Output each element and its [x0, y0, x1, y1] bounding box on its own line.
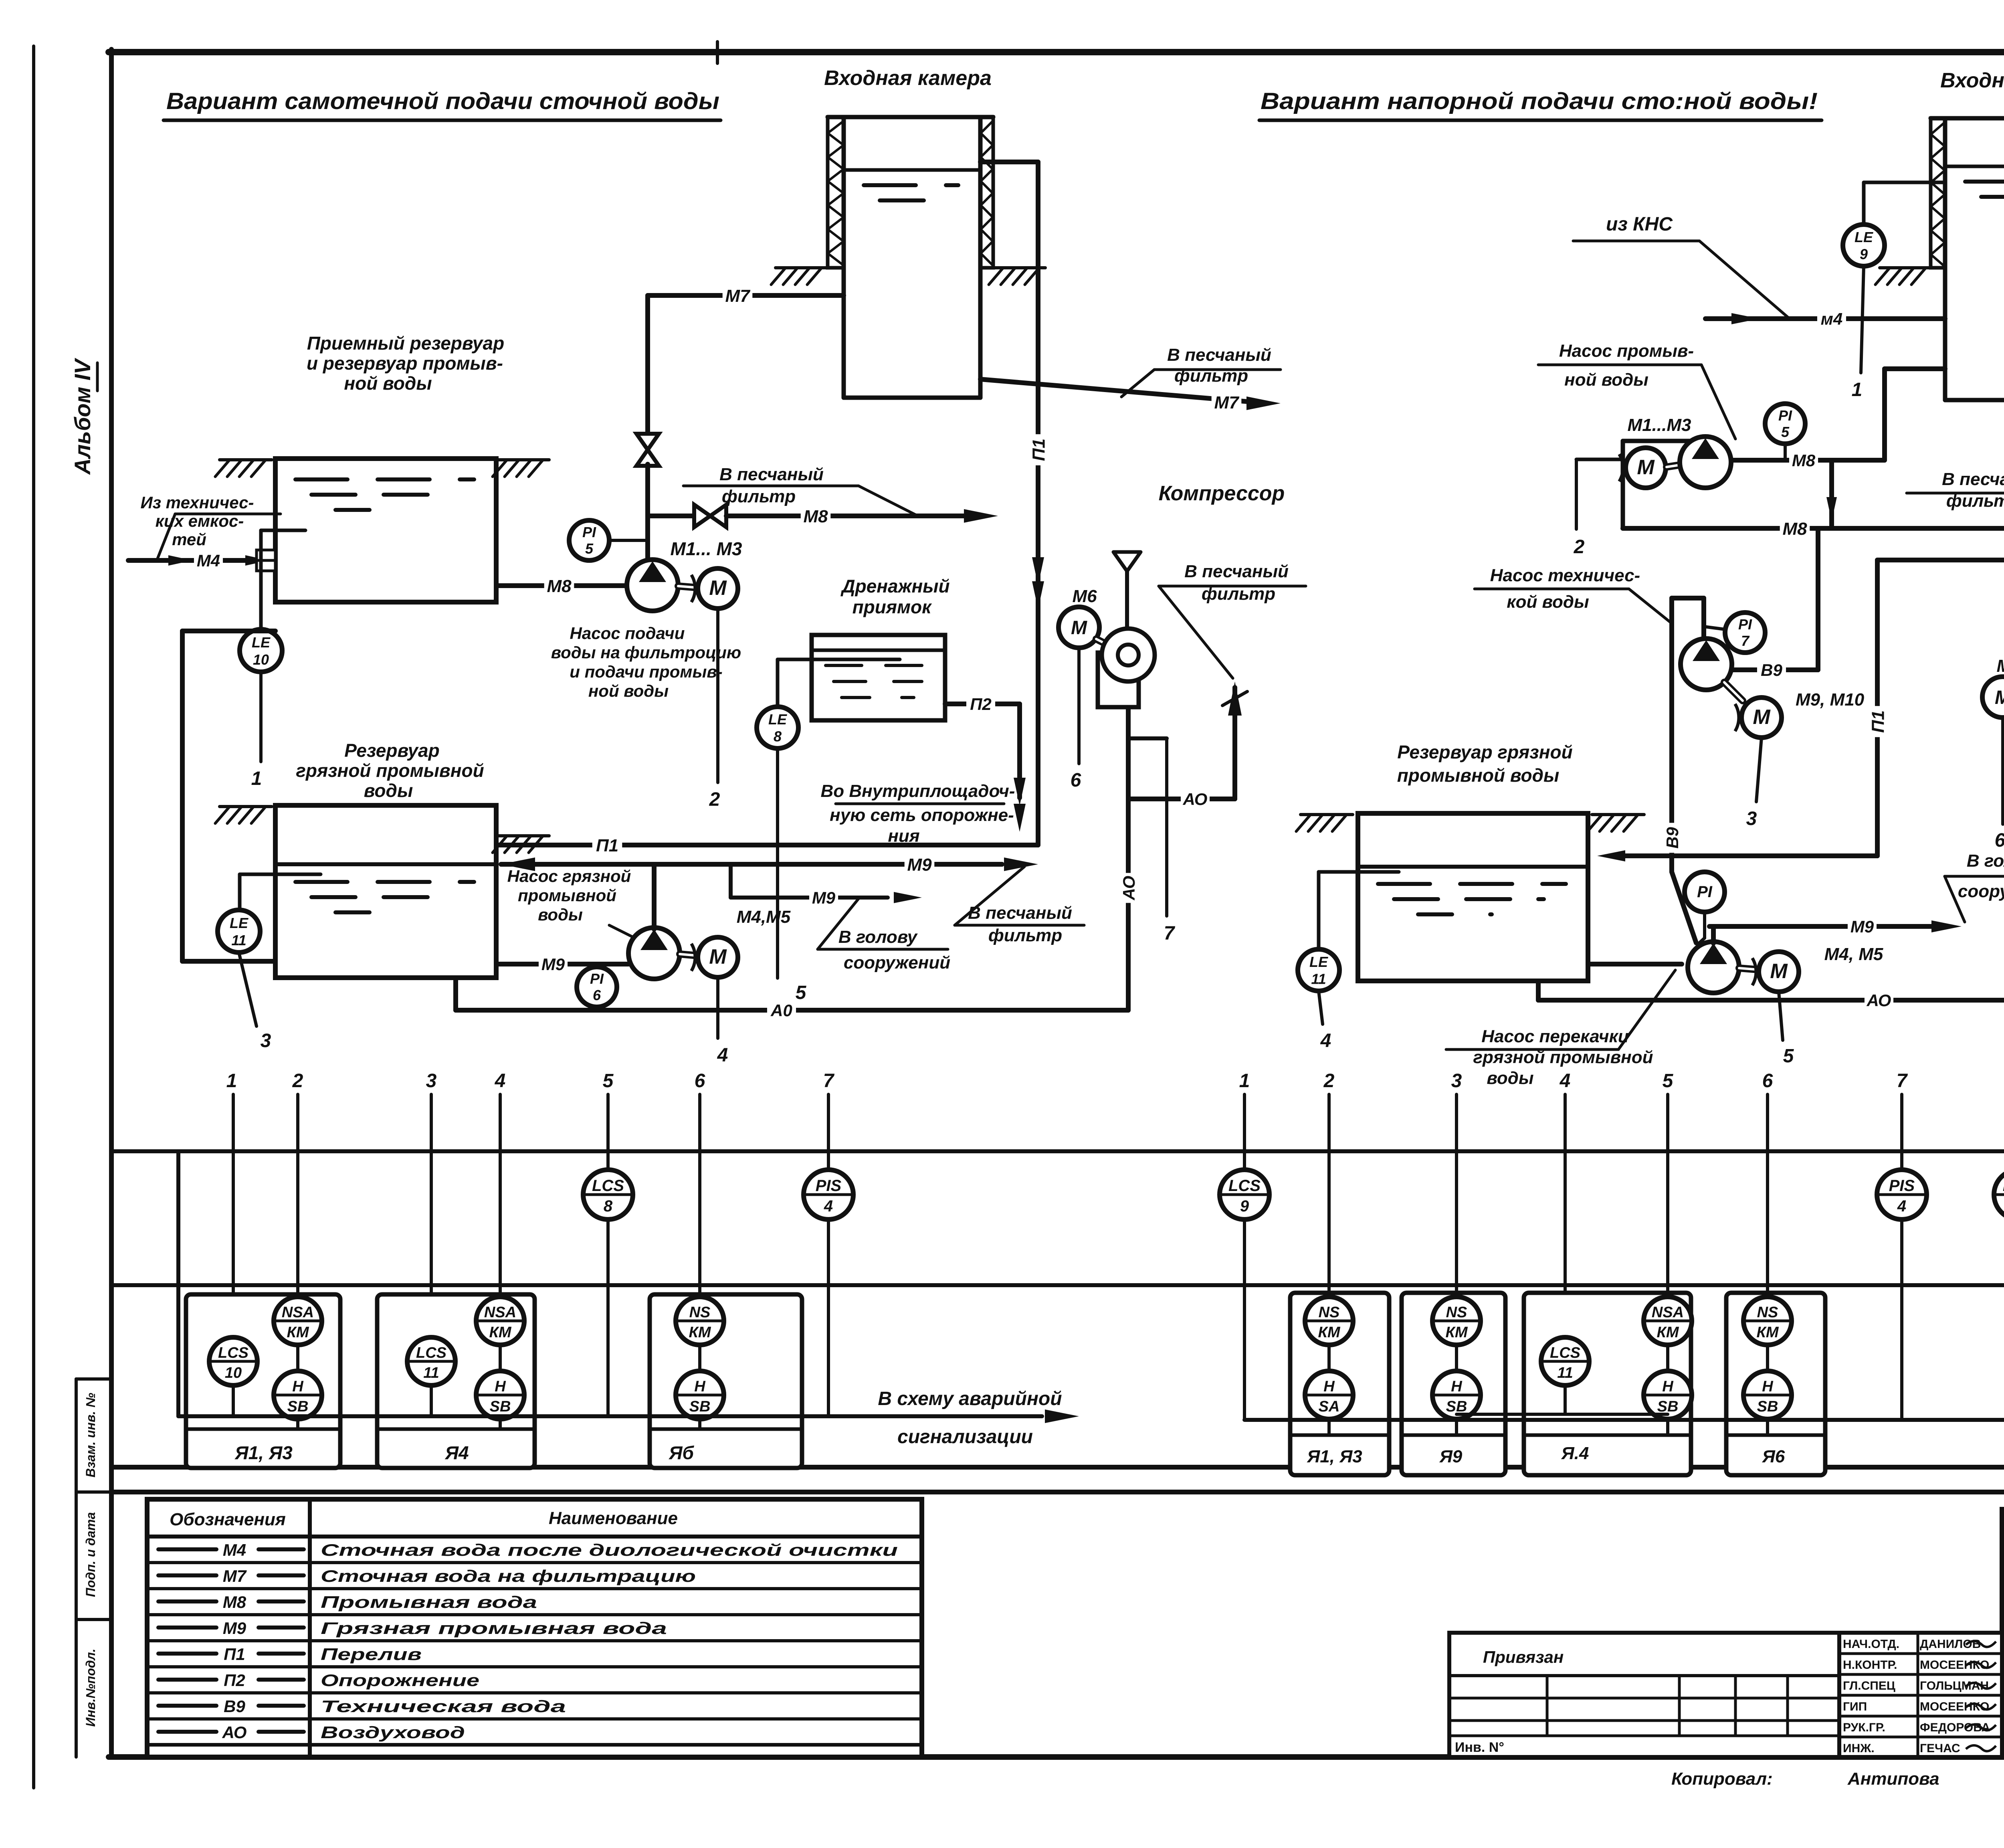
svg-text:PIS: PIS: [1889, 1177, 1915, 1195]
svg-text:8: 8: [604, 1197, 613, 1215]
svg-text:М8: М8: [803, 507, 828, 526]
svg-text:М9: М9: [541, 955, 565, 974]
svg-text:М8: М8: [1792, 451, 1816, 470]
left alarm bus line: [178, 1414, 1042, 1418]
svg-text:и резервуар промыв-: и резервуар промыв-: [307, 353, 503, 374]
svg-text:Я1, Я3: Я1, Я3: [1307, 1447, 1362, 1466]
relay box Яб (left): [650, 1294, 802, 1468]
pipe М9 return line with arrows (left): [501, 853, 1038, 875]
svg-text:ГОЛЬЦМАН: ГОЛЬЦМАН: [1920, 1679, 1989, 1692]
signal wire 6 from М6 (left): [1071, 648, 1081, 791]
svg-text:В схему аварийной: В схему аварийной: [878, 1388, 1062, 1409]
svg-text:м4: м4: [1821, 309, 1842, 328]
instrument NSA/KM box2 (left): [476, 1297, 524, 1371]
full-width separator line above legend: [111, 1490, 2004, 1494]
svg-text:SB: SB: [1446, 1398, 1467, 1415]
svg-text:11: 11: [1557, 1365, 1573, 1381]
svg-text:Наименование: Наименование: [549, 1508, 678, 1528]
svg-text:М7: М7: [725, 286, 751, 306]
svg-text:М8: М8: [547, 576, 572, 596]
wall pass-through sleeves on tank 1: [257, 550, 275, 571]
svg-text:4: 4: [1560, 1070, 1571, 1092]
svg-text:11: 11: [423, 1365, 439, 1381]
svg-text:LE: LE: [1309, 954, 1328, 970]
instrument H/SB box2 (right): [1432, 1371, 1481, 1433]
inlet chamber right inner vessel: [1945, 118, 2004, 400]
svg-text:Яб: Яб: [669, 1442, 695, 1463]
label М9, М10: [1796, 690, 1865, 710]
label В песчаный фильтр (left top): [1121, 345, 1281, 397]
svg-text:3: 3: [1746, 808, 1757, 829]
motor М4,М5 (right): [1752, 952, 1799, 992]
svg-text:3: 3: [426, 1070, 437, 1092]
svg-text:6: 6: [1995, 830, 2004, 851]
legend row АО: [147, 1723, 922, 1745]
svg-text:PI: PI: [590, 971, 604, 987]
svg-text:PI: PI: [1697, 883, 1713, 901]
arrow АО up (left): [1222, 681, 1247, 716]
label Во внутриплощадочную сеть опорожнения (left): [821, 781, 1015, 846]
svg-text:SB: SB: [1757, 1398, 1778, 1415]
instrument H/SB box2 (left): [476, 1371, 524, 1427]
svg-text:М9: М9: [1850, 917, 1874, 936]
svg-text:Приемный резервуар: Приемный резервуар: [307, 333, 504, 354]
double arrow П2 down (left): [1014, 778, 1026, 832]
svg-text:3: 3: [1451, 1070, 1462, 1092]
svg-text:Грязная промывная вода: Грязная промывная вода: [321, 1619, 667, 1638]
svg-text:SB: SB: [689, 1398, 711, 1415]
svg-text:SB: SB: [287, 1398, 309, 1415]
pipe П1 riser from inlet chamber (left): [980, 162, 1049, 845]
svg-text:АО: АО: [1183, 790, 1208, 809]
motor М6 (right): [1982, 656, 2004, 718]
svg-text:5: 5: [585, 540, 594, 557]
svg-text:П1: П1: [1869, 710, 1888, 733]
label М4, М5 (right): [1824, 944, 1883, 964]
svg-text:В песчаный: В песчаный: [968, 903, 1072, 923]
pipe П2 from drain pit (left): [945, 694, 1020, 798]
label Входная камера (left): [824, 67, 992, 90]
svg-text:фильтр: фильтр: [722, 487, 796, 506]
ground hatch right of right tank: [1588, 815, 1644, 831]
air pipe АО branch to sand filter (left): [1128, 687, 1235, 809]
svg-text:Вариант напорной подачи сто: Вариант напорной подачи сто:ной воды!: [1261, 88, 1818, 114]
svg-text:LCS: LCS: [1550, 1345, 1580, 1361]
svg-text:КМ: КМ: [1657, 1324, 1679, 1341]
label В голову сооружений (right): [1945, 851, 2004, 922]
left signal column 2 wire: [296, 1094, 299, 1298]
pump М4,М5 (left): [628, 928, 680, 979]
svg-text:НАЧ.ОТД.: НАЧ.ОТД.: [1843, 1638, 1899, 1651]
label М1...М3 (right): [1628, 415, 1691, 435]
svg-text:Вариант самотечной подачи с: Вариант самотечной подачи сточной воды: [166, 88, 719, 114]
pipe М7 from chamber to riser (left): [648, 285, 844, 435]
motor of pump М4,М5 (left): [691, 937, 738, 977]
suction М9 from tank 2: [496, 954, 628, 974]
ground hatch left of right chamber: [1875, 268, 1932, 285]
inlet chamber inner vessel: [844, 117, 980, 398]
inlet chamber right top edge: [1931, 116, 2004, 121]
instrument PI 5 (right): [1765, 404, 1805, 460]
label Резервуар грязной промывной воды (right): [1397, 742, 1573, 786]
instrument H/SA box1 (right): [1305, 1371, 1353, 1433]
svg-text:Инв. N°: Инв. N°: [1455, 1740, 1504, 1755]
svg-text:8: 8: [774, 728, 782, 744]
svg-text:Альбом IV: Альбом IV: [70, 358, 95, 475]
svg-text:2: 2: [292, 1070, 303, 1092]
instrument NS/KM box2 (right): [1432, 1297, 1481, 1371]
svg-text:Насос промыв-: Насос промыв-: [1559, 341, 1694, 361]
svg-text:сооружений: сооружений: [1958, 882, 2004, 901]
relay box Я6 (right): [1726, 1293, 1825, 1475]
svg-text:В9: В9: [1663, 827, 1682, 849]
signal wire 4 from motor М4,М5 (left): [717, 977, 728, 1066]
svg-text:М1...М3: М1...М3: [1628, 415, 1691, 435]
svg-text:NS: NS: [1446, 1304, 1467, 1321]
svg-text:PI: PI: [582, 524, 596, 540]
svg-text:А0: А0: [770, 1001, 792, 1020]
svg-text:Н: Н: [1762, 1378, 1774, 1395]
signal band bottom horizontal line: [111, 1465, 2004, 1470]
svg-text:М9: М9: [223, 1619, 246, 1638]
legend row М4: [147, 1541, 922, 1563]
instrument H/SB box1 (left): [274, 1371, 322, 1427]
svg-text:LE: LE: [1855, 229, 1873, 245]
svg-text:Дренажный: Дренажный: [840, 576, 949, 596]
svg-text:Резервуар: Резервуар: [344, 740, 440, 761]
svg-text:М9: М9: [812, 888, 836, 907]
relay box Я1,Я3 (left): [186, 1294, 340, 1468]
svg-text:NS: NS: [689, 1304, 711, 1321]
signal wire 2 from motor (left): [709, 609, 720, 810]
right signal column 3 wire: [1455, 1094, 1458, 1298]
svg-text:КМ: КМ: [1318, 1324, 1340, 1341]
svg-text:2: 2: [1323, 1070, 1335, 1092]
pipe П1 overflow line (left): [496, 834, 1038, 855]
svg-text:М9: М9: [907, 855, 932, 875]
instrument NSA/KM box1 (left): [274, 1297, 322, 1371]
svg-text:PI: PI: [1738, 616, 1752, 633]
inlet chamber left wall (hatched): [828, 117, 844, 268]
svg-text:LCS: LCS: [592, 1177, 624, 1195]
signature rows block: [1839, 1633, 2002, 1757]
label Насос технической воды: [1475, 566, 1672, 623]
svg-text:6: 6: [593, 987, 601, 1003]
svg-text:5: 5: [1663, 1070, 1674, 1092]
level tap LE 11 (right): [1319, 872, 1399, 949]
title block object name cell: [2002, 1630, 2004, 1688]
svg-text:сигнализации: сигнализации: [897, 1426, 1033, 1448]
label Из технических емкостей: [141, 493, 281, 560]
instrument PIS 4 (left band): [804, 1170, 853, 1219]
svg-text:ную сеть опорожне-: ную сеть опорожне-: [830, 805, 1014, 825]
svg-text:Копировал:: Копировал:: [1671, 1769, 1773, 1789]
shaft (right wash pump): [1667, 465, 1679, 467]
motor of pump М1...М3: [691, 568, 738, 609]
svg-text:М4: М4: [197, 551, 220, 570]
svg-text:В9: В9: [1761, 661, 1782, 679]
svg-text:М: М: [1637, 456, 1655, 479]
pipe В9 discharge (right): [1732, 528, 1818, 679]
legend row М7: [147, 1567, 922, 1589]
inlet arrow М4 into tank 1: [128, 550, 275, 570]
svg-text:Н: Н: [292, 1378, 304, 1395]
svg-text:LCS: LCS: [218, 1345, 248, 1361]
inlet chamber right wall (hatched): [980, 117, 993, 268]
ground hatch right of tank 2: [493, 836, 549, 853]
label Дренажный приямок (left): [840, 576, 949, 617]
svg-text:Подп. и дата: Подп. и дата: [83, 1512, 98, 1597]
compressor funnel (left): [1113, 552, 1141, 629]
svg-text:из КНС: из КНС: [1606, 214, 1673, 235]
svg-text:М: М: [1753, 706, 1771, 729]
svg-text:2: 2: [709, 789, 720, 810]
instrument PI (right transfer pump): [1685, 872, 1725, 943]
legend table frame: [147, 1499, 922, 1757]
svg-text:приямок: приямок: [853, 596, 933, 617]
svg-text:SB: SB: [1657, 1398, 1679, 1415]
svg-text:М6: М6: [1072, 586, 1097, 606]
svg-text:Воздуховод: Воздуховод: [321, 1723, 465, 1742]
привязан block: [1449, 1633, 1839, 1757]
level tap for LE 8 (left): [778, 659, 900, 707]
left signal column numbers: [226, 1070, 835, 1092]
instrument H/SB box4 (right): [1743, 1371, 1792, 1433]
svg-text:Техническая вода: Техническая вода: [321, 1697, 566, 1716]
instrument H/SB box3 (left): [676, 1371, 724, 1427]
svg-text:воды: воды: [1487, 1068, 1533, 1088]
ground hatch left of tank 1: [215, 460, 272, 477]
instrument H/SB box3 (right): [1644, 1371, 1692, 1433]
svg-text:В9: В9: [224, 1697, 245, 1716]
svg-text:4: 4: [1897, 1197, 1906, 1215]
svg-text:сооружений: сооружений: [844, 953, 950, 973]
pump house box (right wash pumps): [1623, 441, 1700, 528]
tank 1 water dashes: [295, 479, 474, 510]
svg-text:Насос подачи: Насос подачи: [570, 624, 685, 643]
sidebar rotated label Подп. и дата: [83, 1512, 98, 1597]
riser from pump М4,М5 to М9 line: [652, 864, 657, 929]
label Резервуар грязной промывной воды (left): [296, 740, 484, 801]
svg-text:9: 9: [1240, 1197, 1249, 1215]
pump shaft (left pump 1): [678, 586, 698, 588]
left bus drop wire: [176, 1151, 180, 1416]
label Насос промывной воды: [1538, 341, 1735, 439]
instrument PI 6: [577, 964, 617, 1007]
svg-text:LCS: LCS: [416, 1345, 446, 1361]
svg-text:5: 5: [603, 1070, 614, 1092]
svg-text:7: 7: [1741, 633, 1750, 649]
compressor fan housing (left): [1098, 629, 1155, 707]
svg-text:Во Внутриплощадоч-: Во Внутриплощадоч-: [821, 781, 1015, 801]
svg-text:Я6: Я6: [1762, 1447, 1785, 1466]
svg-text:Я.4: Я.4: [1561, 1444, 1589, 1463]
svg-text:Инв.№подл.: Инв.№подл.: [83, 1649, 98, 1727]
title block empty row line: [2002, 1626, 2004, 1757]
svg-text:Я1, Я3: Я1, Я3: [234, 1442, 293, 1463]
ground hatch left of tank 2: [215, 807, 272, 823]
level tap for LE 11 (left): [240, 874, 321, 910]
sidebar column lines: [76, 1379, 111, 1757]
legend header Наименование: [549, 1508, 678, 1528]
svg-text:Резервуар грязной: Резервуар грязной: [1397, 742, 1572, 762]
svg-text:П2: П2: [224, 1671, 245, 1690]
right signal column 7 wire: [1900, 1094, 1903, 1420]
svg-text:9: 9: [1860, 246, 1868, 262]
pipe М8 to sand filter (left) with valve: [648, 505, 964, 527]
svg-text:LCS: LCS: [1228, 1177, 1261, 1195]
В9 bend to transfer pump (right): [1672, 872, 1696, 943]
label М1... М3 (left): [671, 538, 742, 559]
svg-text:тей: тей: [172, 530, 206, 549]
tank right Резервуар грязной промывной воды: [1358, 813, 1588, 981]
label В песчаный фильтр (right М8): [1907, 469, 2004, 527]
left signal column 5 wire: [606, 1094, 610, 1416]
svg-text:В песчаный: В песчаный: [1184, 562, 1289, 581]
motor М9,М10 (right): [1735, 698, 1782, 738]
title block outer frame: [2002, 1509, 2004, 1757]
svg-text:6: 6: [1762, 1070, 1773, 1092]
inlet chamber right water line and dashes: [1945, 166, 2004, 197]
svg-text:АО: АО: [1119, 876, 1138, 901]
legend bottom inner line: [147, 1743, 922, 1746]
drain pit tank (left): [812, 635, 945, 720]
svg-text:М7: М7: [223, 1567, 247, 1585]
tank 2 waterline and dashes: [275, 864, 496, 912]
svg-text:Привязан: Привязан: [1483, 1648, 1564, 1666]
label Насос подачи воды на фильтрацию: [551, 624, 741, 700]
branch to signal 7 (left): [1128, 738, 1176, 944]
svg-text:Н.КОНТР.: Н.КОНТР.: [1843, 1658, 1897, 1672]
svg-text:Н: Н: [1323, 1378, 1335, 1395]
svg-text:Н: Н: [1662, 1378, 1674, 1395]
svg-text:АО: АО: [1867, 991, 1891, 1010]
title block row тп 902-2-443.87: [2002, 1542, 2004, 1581]
svg-text:LE: LE: [252, 634, 271, 651]
svg-text:LE: LE: [768, 711, 787, 728]
svg-text:РУК.ГР.: РУК.ГР.: [1843, 1721, 1885, 1734]
right signal column 6 wire: [1766, 1094, 1769, 1298]
instrument NSA/KM box3 (right): [1644, 1297, 1692, 1371]
motor М6 (left): [1059, 586, 1099, 648]
pump tech water (right): [1681, 639, 1732, 690]
svg-text:6: 6: [1071, 770, 1081, 791]
instrument LCS 8 (left band): [583, 1170, 633, 1219]
svg-text:Сточная вода после диологическ: Сточная вода после диологической очистки: [321, 1541, 898, 1559]
ground hatch right of tank 1: [493, 460, 549, 477]
signal wire 3 from LE 11 (left): [239, 952, 271, 1051]
svg-text:М9, М10: М9, М10: [1796, 690, 1865, 710]
label В голову сооружений (left): [818, 899, 950, 973]
legend header Обозначения: [170, 1510, 286, 1529]
svg-text:Взам. инв. №: Взам. инв. №: [83, 1393, 98, 1478]
label В песчаный фильтр (left, near М8): [683, 465, 918, 516]
right title Вариант напорной подачи сточной воды: [1259, 88, 1822, 120]
right signal column 1 wire: [1243, 1094, 1246, 1420]
sidebar rotated label Инв. № подл.: [83, 1649, 98, 1727]
pipe П1 from right chamber: [1867, 156, 2004, 856]
pipe М8 long line to sand filter (right): [1623, 518, 2004, 539]
svg-text:PI: PI: [1778, 407, 1792, 424]
svg-text:ной воды: ной воды: [344, 373, 432, 394]
svg-text:Промывная вода: Промывная вода: [321, 1593, 537, 1611]
svg-text:КМ: КМ: [1445, 1324, 1468, 1341]
svg-text:4: 4: [495, 1070, 506, 1092]
svg-text:фильтр: фильтр: [988, 926, 1062, 945]
svg-text:воды на фильтроцию: воды на фильтроцию: [551, 643, 741, 662]
inlet chamber water level line and dashes: [844, 170, 980, 200]
ground hatch right of inlet chamber: [989, 268, 1045, 285]
valve on М7 riser: [636, 434, 659, 466]
svg-text:Входная камера: Входная камера: [1940, 69, 2004, 92]
instrument NS/KM box4 (right): [1743, 1297, 1792, 1371]
svg-text:М: М: [1995, 687, 2004, 708]
instrument LCS 10 box1 (left): [209, 1337, 257, 1416]
svg-text:7: 7: [1897, 1070, 1908, 1092]
instrument LE 11 (right): [1298, 949, 1339, 991]
label Приемный резервуар и резервуар промывной воды: [307, 333, 504, 394]
svg-text:1: 1: [251, 768, 262, 789]
tank 2 Резервуар грязной промывной воды (left): [275, 805, 496, 978]
svg-text:М1... М3: М1... М3: [671, 538, 742, 559]
svg-text:Из техничес-: Из техничес-: [141, 493, 254, 512]
motor of wash pumps (right): [1619, 448, 1666, 488]
pipe М8 discharge (right): [1731, 369, 1945, 528]
svg-text:Н: Н: [495, 1378, 506, 1395]
arrow М8 to sand filter (left): [964, 509, 998, 523]
signal wire 4 (right): [1319, 991, 1331, 1051]
relay box Я9 (right): [1402, 1293, 1505, 1475]
label Насос грязной промывной воды (left): [507, 867, 644, 943]
svg-text:SА: SА: [1319, 1398, 1340, 1415]
svg-text:NSA: NSA: [1652, 1304, 1684, 1321]
svg-text:NS: NS: [1757, 1304, 1778, 1321]
svg-text:Я9: Я9: [1439, 1447, 1463, 1466]
instrument LCS 11 box3 (right): [1541, 1337, 1589, 1414]
svg-text:Обозначения: Обозначения: [170, 1510, 286, 1529]
svg-text:П1: П1: [224, 1645, 245, 1664]
pump М1...М3 (right): [1680, 437, 1731, 488]
cross wire from box2 H/SB to box3 (right): [1457, 1413, 1668, 1416]
pump shaft (left pump 2): [680, 954, 698, 956]
signal band upper horizontal line: [111, 1149, 2004, 1153]
svg-text:NS: NS: [1319, 1304, 1340, 1321]
inlet chamber right: left wall (hatched): [1931, 118, 1945, 268]
legend row П2: [147, 1671, 922, 1693]
legend row М8: [147, 1593, 922, 1615]
svg-text:В песчаный: В песчаный: [1942, 469, 2004, 489]
svg-text:В песчаный: В песчаный: [1167, 345, 1271, 365]
signal wire 6 (right): [1995, 718, 2004, 851]
svg-text:Перелив: Перелив: [321, 1645, 422, 1664]
svg-text:ГЛ.СПЕЦ: ГЛ.СПЕЦ: [1843, 1679, 1895, 1692]
svg-text:ДАНИЛОВ: ДАНИЛОВ: [1920, 1638, 1981, 1651]
svg-text:Н: Н: [694, 1378, 706, 1395]
relay box Я1,Я3 (right): [1290, 1293, 1389, 1475]
svg-text:Входная камера: Входная камера: [824, 67, 992, 90]
svg-text:4: 4: [824, 1197, 833, 1215]
svg-text:SB: SB: [490, 1398, 511, 1415]
label М4,М5 (left): [737, 907, 791, 927]
svg-text:В песчаный: В песчаный: [719, 465, 824, 484]
instrument LCS 8 (right band): [1994, 1170, 2004, 1219]
instrument LCS 11 box2 (left): [407, 1337, 455, 1416]
svg-text:М4: М4: [223, 1541, 246, 1559]
right signal column 4 wire: [1564, 1094, 1567, 1338]
svg-text:1: 1: [1239, 1070, 1250, 1092]
instrument LE 10: [240, 629, 282, 672]
pipe М7 outlet to sand filter (left): [980, 379, 1281, 412]
